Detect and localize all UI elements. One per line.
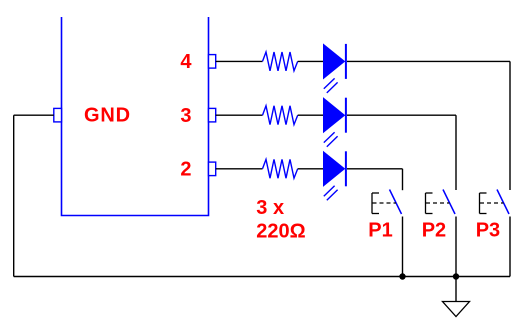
wire LED D1 cathode to right corner	[347, 60, 510, 62]
resistor value label 3 x 220 ohm, line 1	[256, 197, 284, 219]
LED D2 cathode bar	[345, 98, 347, 133]
pin name label GND	[84, 104, 131, 126]
switch P1 label	[368, 220, 392, 242]
wire pin 2 to resistor R3	[216, 168, 263, 170]
pin 2 (square on right edge of U1)	[209, 162, 216, 176]
LED D3 cathode bar	[345, 151, 347, 186]
wire left corner down	[13, 115, 15, 276]
pin 4 (square on right edge of U1)	[209, 55, 216, 69]
wire GND pin to left corner	[14, 114, 54, 116]
switch P2 (push button)	[426, 190, 456, 215]
LED D2 (triangle anode)	[324, 98, 345, 132]
IC box U1 (open-top outline)	[62, 17, 209, 216]
svg-text:220Ω: 220Ω	[256, 220, 305, 242]
ground symbol	[443, 302, 470, 317]
wire corner down to switch P1 top	[402, 169, 404, 190]
pin 3 (square on right edge of U1)	[209, 108, 216, 122]
pin number 4 label	[180, 51, 192, 73]
svg-text:3 x: 3 x	[256, 197, 284, 219]
LED D2 light-emission slashes	[324, 132, 338, 147]
pin GND (square on left edge of U1)	[54, 108, 62, 122]
wire R3 to LED D3 anode	[298, 168, 324, 170]
resistor R3 (zigzag)	[263, 159, 298, 178]
junction dot at P2 / bus	[453, 273, 459, 279]
wire bus to ground symbol	[455, 277, 457, 302]
LED D1 light-emission slashes	[324, 78, 338, 93]
wire LED D2 cathode to right corner	[347, 114, 456, 116]
resistor R2 (zigzag)	[263, 106, 298, 125]
wire switch P3 bottom to ground bus	[509, 217, 511, 277]
LED D1 (triangle anode)	[324, 44, 345, 78]
switch P3 (push button)	[480, 190, 510, 215]
svg-text:P3: P3	[476, 220, 500, 242]
svg-text:3: 3	[180, 105, 191, 127]
resistor value label line 2	[256, 220, 305, 242]
wire corner down to switch P2 top	[455, 115, 457, 190]
svg-text:4: 4	[180, 51, 192, 73]
LED D3 light-emission slashes	[324, 186, 338, 201]
svg-text:GND: GND	[84, 104, 131, 126]
LED D3 (triangle anode)	[324, 152, 345, 186]
switch P3 label	[476, 220, 500, 242]
pin number 2 label	[180, 159, 191, 181]
svg-text:P2: P2	[422, 220, 446, 242]
wire pin 4 to resistor R1	[216, 60, 263, 62]
wire R2 to LED D2 anode	[298, 114, 324, 116]
switch P2 label	[422, 220, 446, 242]
wire R1 to LED D1 anode	[298, 60, 324, 62]
pin number 3 label	[180, 105, 191, 127]
junction dot at P1 / bus	[399, 273, 405, 279]
wire LED D3 cathode to right corner	[347, 168, 403, 170]
wire switch P2 bottom to ground bus	[455, 217, 457, 277]
resistor R1 (zigzag)	[263, 52, 298, 71]
switch P1 (push button)	[372, 190, 402, 215]
svg-text:2: 2	[180, 159, 191, 181]
ground bus wire (bottom horizontal)	[14, 276, 510, 278]
svg-text:P1: P1	[368, 220, 392, 242]
wire corner down to switch P3 top	[509, 61, 511, 190]
wire pin 3 to resistor R2	[216, 114, 263, 116]
LED D1 cathode bar	[345, 44, 347, 79]
wire switch P1 bottom to ground bus	[402, 217, 404, 277]
